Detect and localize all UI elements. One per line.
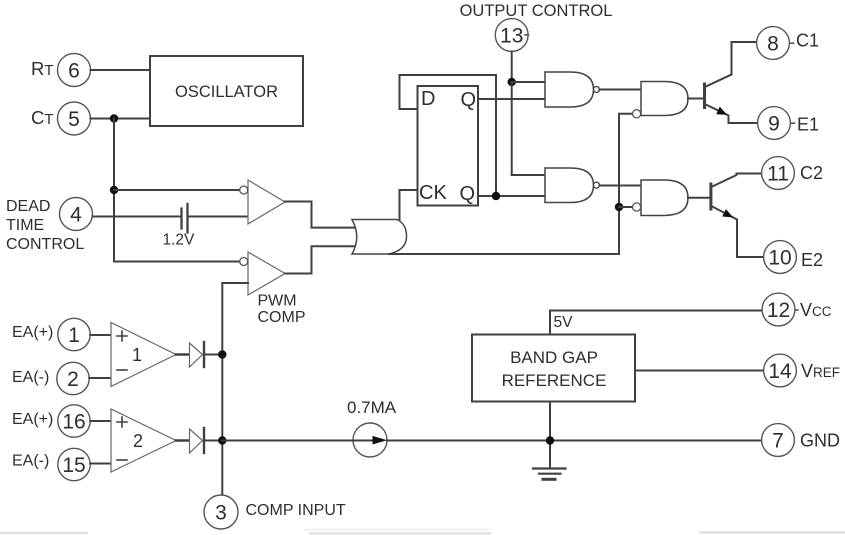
svg-text:Q: Q [459,183,475,205]
svg-text:9: 9 [768,113,780,136]
ground [533,467,566,469]
wire Q output [478,98,545,100]
flip-flop box [418,86,479,206]
wire 5V to pin12 [550,311,762,334]
svg-text:CONTROL: CONTROL [6,236,84,253]
node ground junction [546,436,554,444]
svg-text:RT: RT [31,58,54,79]
wire pin13 to junction [511,52,513,83]
wire pin16 to EA2 [90,420,111,422]
svg-text:REFERENCE: REFERENCE [502,371,607,390]
current source 0.7MA [353,423,387,457]
svg-text:15: 15 [62,454,85,477]
diode D1 [190,343,203,367]
and-gate A2 [545,168,594,203]
pin 12 [762,293,795,326]
svg-text:E1: E1 [797,115,819,135]
svg-text:1: 1 [68,324,80,347]
wire DT comp output [285,202,355,228]
svg-text:TIME: TIME [6,217,44,234]
wire CT bus vertical [113,119,115,262]
svg-text:C2: C2 [800,163,823,183]
wire EA2 output [176,439,190,442]
svg-text:14: 14 [768,360,792,383]
pin 11 [762,157,795,190]
svg-text:VCC: VCC [800,300,832,320]
svg-text:EA(+): EA(+) [12,324,53,341]
svg-text:CK: CK [419,182,447,204]
wire pin4 to battery [93,216,181,218]
wire OC to gate A2 [512,174,545,176]
or-gate U3 [352,220,407,255]
svg-text:BAND GAP: BAND GAP [510,348,598,367]
svg-text:8: 8 [767,33,779,56]
svg-text:GND: GND [800,431,840,451]
wire to DT comparator inverting input [114,189,239,191]
svg-text:5V: 5V [554,314,574,331]
svg-text:EA(-): EA(-) [12,453,49,470]
wire D feedback loop [400,75,497,196]
wire A2 to B2 [600,185,642,187]
transistor Q2 [688,197,710,199]
wire PWM bus vertical [619,114,632,254]
wire Qbar output [478,195,545,197]
wire PWM comp output [285,246,355,273]
svg-text:0.7MA: 0.7MA [347,398,397,417]
wire pin1 to EA1 [90,334,111,336]
pin 16 [58,405,90,437]
svg-text:DEAD: DEAD [6,198,50,215]
wire A1 to B1 [600,89,642,91]
pin 10 [764,241,797,274]
svg-text:10: 10 [768,247,791,270]
wire pin2 to EA1 [89,377,111,379]
wire pin15 to EA2 [90,463,111,465]
node CT branch [110,114,118,122]
svg-text:Q: Q [460,89,476,111]
svg-text:1: 1 [132,345,142,365]
svg-text:OSCILLATOR: OSCILLATOR [175,83,278,101]
svg-text:EA(-): EA(-) [12,369,49,386]
wire OC vertical to lower gate [511,82,513,175]
pin 5 [58,102,91,135]
op-amp EA1 [111,323,176,387]
svg-text:11: 11 [767,163,789,186]
wire OR to CK [400,190,418,220]
svg-text:CT: CT [31,107,54,128]
pin 4 [60,198,93,231]
wire comp node to GND rail [222,440,353,442]
pin 15 [58,448,90,480]
wire OC to gate A1 [512,81,545,83]
pin 9 [758,107,791,140]
diode D2 [190,429,203,453]
scan speck near pin 8 [791,42,794,44]
svg-text:D: D [421,88,435,110]
band gap reference box [472,335,635,402]
svg-text:5: 5 [68,108,80,131]
wire bandgap to pin14 [637,370,765,372]
scan speck near pin 12 [796,309,798,311]
svg-text:13: 13 [500,25,523,48]
node comp junction 2 [218,436,226,444]
svg-text:3: 3 [215,502,227,525]
wire pin5 to oscillator [91,118,151,120]
svg-text:COMP INPUT: COMP INPUT [246,502,346,519]
svg-text:2: 2 [133,431,143,451]
svg-text:COMP: COMP [258,309,306,326]
svg-text:7: 7 [772,430,784,453]
scan speck near pin 13 [525,34,529,36]
wire pin6 to oscillator [91,69,151,71]
wire 0.7MA to pin7 [387,440,762,442]
pin 6 [58,54,91,87]
scan speck near pin 9 [792,122,795,124]
svg-text:EA(+): EA(+) [12,411,53,428]
svg-text:E2: E2 [801,250,823,270]
svg-text:4: 4 [70,204,82,227]
pin 3 [204,495,238,529]
transistor Q1 [688,98,704,100]
and-gate A1 [545,72,594,107]
svg-text:C1: C1 [796,31,819,51]
wire junction to B2 bubble [619,206,632,208]
comparator DT (dead-time) [248,180,285,224]
node Qbar feedback junction [492,192,500,200]
scan artifact bars bottom [0,533,845,534]
battery 1.2V [180,209,182,229]
svg-text:6: 6 [68,60,80,83]
pin 7 [762,424,795,457]
op-amp EA2 [111,409,176,472]
and-gate B1 [641,82,688,116]
pin 13 [495,19,528,52]
svg-text:12: 12 [767,299,790,322]
wire EA1 output [176,353,190,356]
pin 14 [764,354,797,387]
svg-text:2: 2 [67,368,79,391]
svg-text:OUTPUT CONTROL: OUTPUT CONTROL [460,2,613,20]
svg-text:1.2V: 1.2V [163,232,196,249]
svg-text:16: 16 [62,411,85,434]
wire OR output bus [389,253,619,255]
node comp junction 1 [218,350,226,358]
node PWM bus junction [615,203,623,211]
wire bandgap to ground [549,404,551,469]
wire to PWM comparator inverting input [114,261,239,263]
pin 8 [757,27,790,60]
svg-text:PWM: PWM [258,293,297,310]
wire battery to DT comparator [189,216,249,218]
comparator PWM [248,252,285,295]
and-gate B2 [641,180,688,216]
pin 1 [58,318,90,350]
node junction OC [508,78,516,86]
svg-text:VREF: VREF [801,361,840,381]
pin 2 [57,362,89,394]
node CT bus branch [110,186,118,194]
oscillator box [150,56,303,126]
wire PWM comp feedback input [222,283,248,495]
